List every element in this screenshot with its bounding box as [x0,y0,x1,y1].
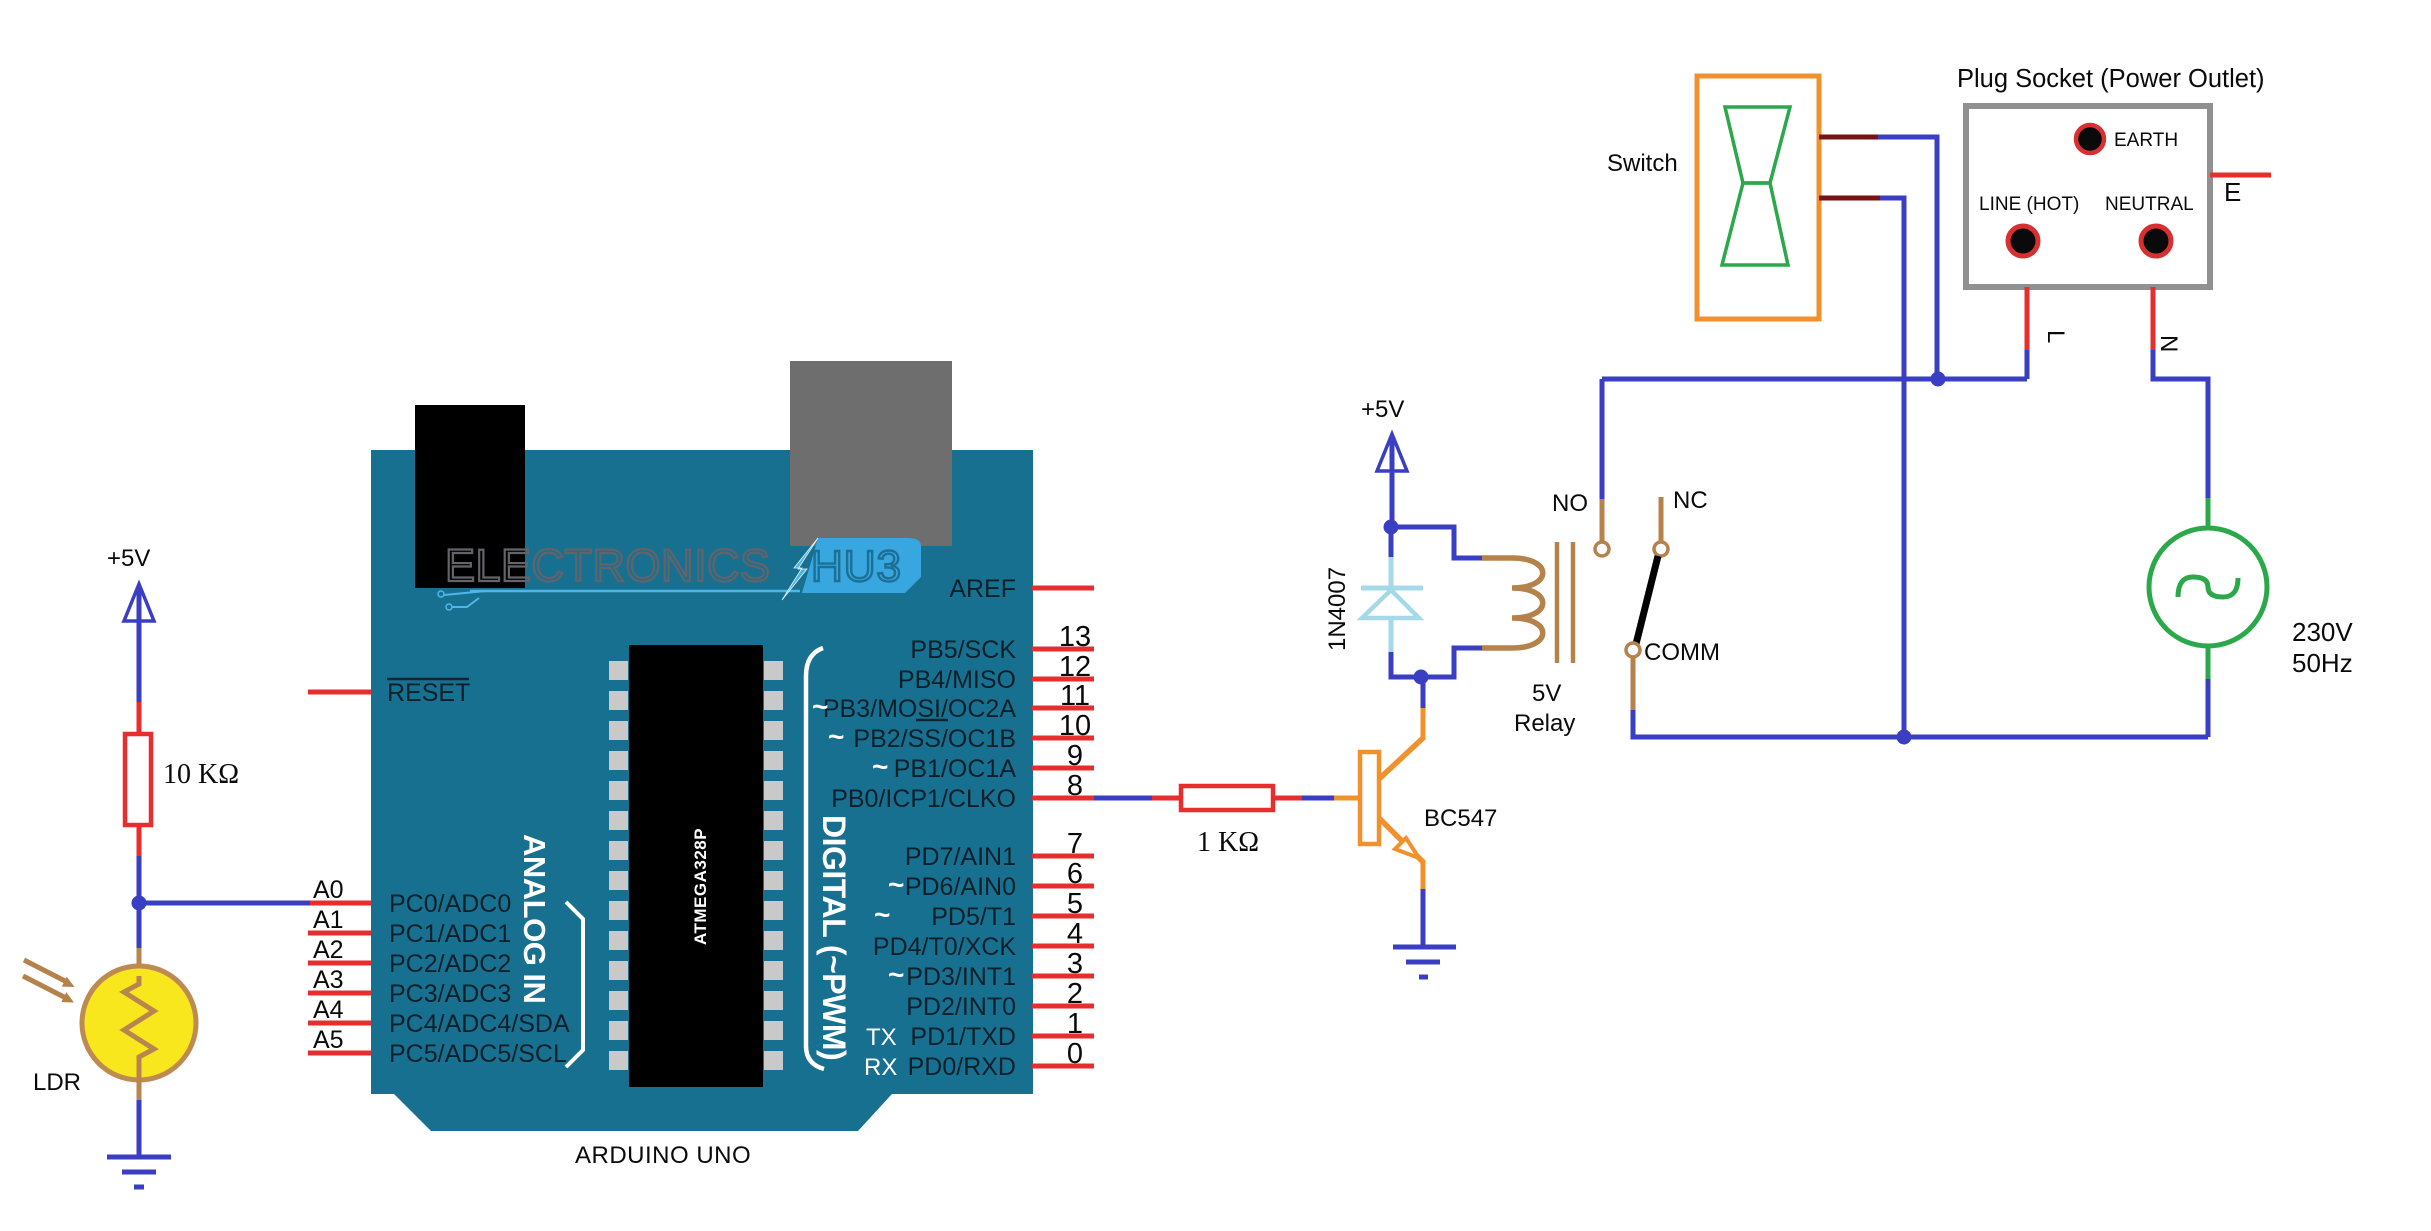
svg-text:~: ~ [828,721,844,752]
svg-text:LDR: LDR [33,1069,81,1096]
svg-text:NEUTRAL: NEUTRAL [2105,194,2194,215]
svg-text:L: L [2042,330,2069,343]
svg-text:NC: NC [1673,487,1708,514]
svg-text:+5V: +5V [107,545,150,572]
svg-text:13: 13 [1059,621,1091,653]
svg-text:0: 0 [1067,1038,1083,1070]
svg-text:ELECTRONICS: ELECTRONICS [445,540,771,591]
svg-text:PC3/ADC3: PC3/ADC3 [389,980,511,1008]
svg-text:~: ~ [812,691,828,722]
svg-text:PC1/ADC1: PC1/ADC1 [389,920,511,948]
svg-text:8: 8 [1067,770,1083,802]
svg-text:~: ~ [888,869,904,900]
svg-text:50Hz: 50Hz [2292,648,2353,678]
svg-text:Relay: Relay [1514,710,1575,737]
svg-text:A1: A1 [313,906,344,934]
svg-text:A2: A2 [313,936,344,964]
svg-text:2: 2 [1067,978,1083,1010]
svg-text:9: 9 [1067,740,1083,772]
svg-text:PD0/RXD: PD0/RXD [908,1053,1016,1081]
svg-text:TX: TX [866,1024,897,1051]
svg-text:A4: A4 [313,996,344,1024]
svg-text:3: 3 [1067,948,1083,980]
svg-text:230V: 230V [2292,617,2353,647]
svg-text:PD2/INT0: PD2/INT0 [906,993,1016,1021]
svg-text:1: 1 [1067,1008,1083,1040]
svg-text:PC0/ADC0: PC0/ADC0 [389,890,511,918]
svg-text:Plug Socket (Power Outlet): Plug Socket (Power Outlet) [1957,65,2265,93]
svg-text:+5V: +5V [1361,396,1404,423]
svg-text:10: 10 [1059,710,1091,742]
svg-text:PB0/ICP1/CLKO: PB0/ICP1/CLKO [831,785,1016,813]
svg-text:11: 11 [1060,680,1090,712]
svg-text:PD6/AIN0: PD6/AIN0 [905,873,1016,901]
svg-text:LINE (HOT): LINE (HOT) [1979,194,2079,215]
svg-text:7: 7 [1067,828,1083,860]
svg-text:PB4/MISO: PB4/MISO [898,666,1016,694]
svg-text:PC2/ADC2: PC2/ADC2 [389,950,511,978]
svg-text:A5: A5 [313,1026,344,1054]
svg-text:RX: RX [864,1054,897,1081]
svg-text:PB2/SS/OC1B: PB2/SS/OC1B [853,725,1016,753]
svg-text:A0: A0 [313,876,344,904]
svg-text:NO: NO [1552,490,1588,517]
svg-text:PD7/AIN1: PD7/AIN1 [905,843,1016,871]
svg-text:PD1/TXD: PD1/TXD [910,1023,1016,1051]
svg-text:12: 12 [1059,651,1091,683]
svg-text:ANALOG IN: ANALOG IN [517,834,552,1003]
svg-text:5V: 5V [1532,680,1561,707]
svg-text:ARDUINO UNO: ARDUINO UNO [575,1142,751,1169]
svg-text:PC4/ADC4/SDA: PC4/ADC4/SDA [389,1010,570,1038]
svg-text:PD4/T0/XCK: PD4/T0/XCK [873,933,1016,961]
svg-text:~: ~ [872,751,888,782]
svg-text:HU3: HU3 [811,542,902,591]
svg-text:Switch: Switch [1607,150,1678,177]
svg-text:BC547: BC547 [1424,805,1497,832]
svg-text:5: 5 [1067,888,1083,920]
svg-text:10 KΩ: 10 KΩ [163,759,239,790]
svg-text:COMM: COMM [1644,639,1720,666]
svg-text:4: 4 [1067,918,1083,950]
svg-text:PC5/ADC5/SCL: PC5/ADC5/SCL [389,1040,567,1068]
svg-text:PD5/T1: PD5/T1 [931,903,1016,931]
svg-text:~: ~ [888,959,904,990]
svg-text:PD3/INT1: PD3/INT1 [906,963,1016,991]
svg-text:EARTH: EARTH [2114,130,2178,151]
svg-text:PB5/SCK: PB5/SCK [910,636,1016,664]
svg-text:E: E [2224,177,2241,207]
svg-text:A3: A3 [313,966,344,994]
svg-text:N: N [2155,335,2182,352]
svg-text:DIGITAL (~PWM): DIGITAL (~PWM) [816,815,852,1060]
svg-text:ATMEGA328P: ATMEGA328P [691,828,710,945]
svg-text:6: 6 [1067,858,1083,890]
svg-text:~: ~ [874,899,890,930]
svg-text:1 KΩ: 1 KΩ [1197,827,1259,858]
svg-text:AREF: AREF [949,575,1016,603]
svg-text:RESET: RESET [387,679,470,707]
svg-text:PB1/OC1A: PB1/OC1A [894,755,1017,783]
svg-text:1N4007: 1N4007 [1324,567,1351,651]
